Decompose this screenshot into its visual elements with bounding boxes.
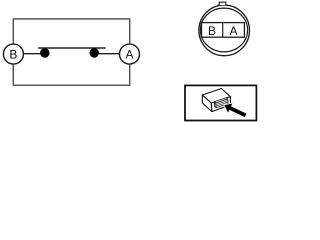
wire from B to junction 1: [23, 53, 44, 55]
pointer arrow: [224, 104, 246, 118]
svg-text:A: A: [125, 48, 133, 62]
terminal cavity box B|A: [202, 23, 245, 38]
cavity divider: [222, 23, 224, 38]
connector index tab: [218, 2, 227, 5]
inset box: [185, 85, 256, 120]
jumper bar between junctions: [38, 47, 105, 49]
junction dot 1: [40, 48, 50, 58]
wire from junction 2 to A: [94, 53, 119, 55]
housing socket block: [214, 98, 228, 108]
svg-text:B: B: [9, 48, 17, 62]
wire: schematic outline box: [13, 19, 129, 85]
svg-text:B: B: [208, 24, 216, 38]
connector housing isometric body: [202, 89, 230, 112]
connector face: outer circle: [199, 5, 250, 56]
svg-text:A: A: [229, 24, 237, 38]
terminal circle A: [120, 44, 140, 64]
junction dot 2: [89, 48, 99, 58]
terminal circle B: [3, 44, 23, 64]
connector face: inner ring: [200, 8, 247, 52]
